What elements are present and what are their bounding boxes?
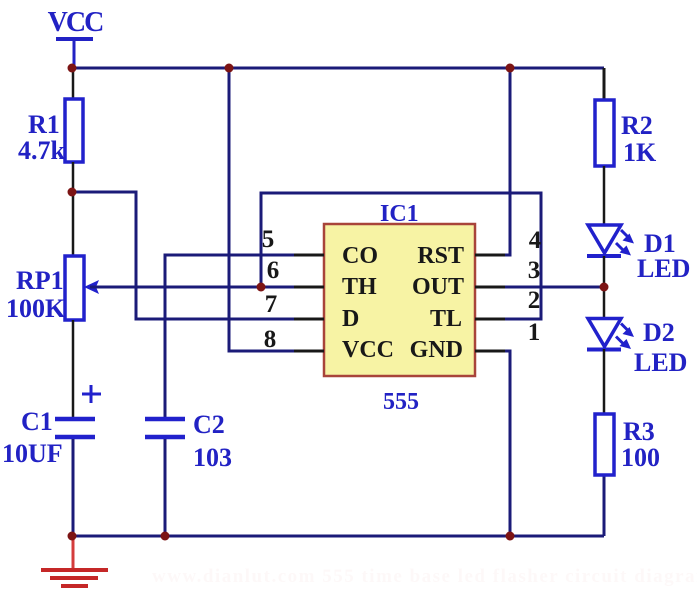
svg-text:VCC: VCC <box>342 337 394 363</box>
pin 1 stub <box>475 350 505 353</box>
svg-text:103: 103 <box>193 443 232 472</box>
svg-text:RST: RST <box>417 243 464 269</box>
svg-text:1: 1 <box>528 319 541 346</box>
wire top rail to pin4 RST <box>475 68 510 255</box>
svg-text:10UF: 10UF <box>2 439 63 468</box>
wire D2 to R3 <box>603 349 606 414</box>
svg-text:C2: C2 <box>193 410 225 439</box>
svg-text:TL: TL <box>430 306 462 332</box>
pin 3 stub <box>475 286 505 289</box>
potentiometer RP1 <box>65 256 99 320</box>
wire R2 to D1 <box>603 166 606 225</box>
capacitor C1 <box>55 385 101 437</box>
svg-text:VCC: VCC <box>48 7 103 38</box>
svg-text:4.7k: 4.7k <box>18 136 66 165</box>
svg-text:R3: R3 <box>623 417 655 446</box>
wire TH junction up and over to TL loop <box>261 193 541 319</box>
wire RP1 wiper to pin6 TH <box>90 286 324 289</box>
svg-text:4: 4 <box>529 227 542 254</box>
wire left rail R1 top stub <box>72 68 75 100</box>
pin 2 stub <box>475 318 505 321</box>
svg-text:D: D <box>342 306 359 332</box>
svg-text:LED: LED <box>634 348 687 377</box>
svg-text:GND: GND <box>410 337 463 363</box>
wire RP1 bottom to C1 <box>72 320 75 418</box>
svg-text:5: 5 <box>262 226 275 253</box>
junction node ground C2 <box>161 532 170 541</box>
wire pin1 GND down to bottom rail <box>475 351 510 536</box>
svg-text:LED: LED <box>637 254 690 283</box>
svg-text:6: 6 <box>267 257 280 284</box>
svg-text:R1: R1 <box>28 110 60 139</box>
svg-text:D2: D2 <box>643 318 675 347</box>
svg-text:CO: CO <box>342 243 378 269</box>
pin 8 stub <box>294 350 324 353</box>
wire bottom rail right riser to R3 <box>603 475 606 536</box>
svg-text:2: 2 <box>528 287 541 314</box>
svg-text:100K: 100K <box>6 294 66 323</box>
resistor R1 <box>65 99 83 162</box>
junction node ground GND pin <box>506 532 515 541</box>
svg-text:1K: 1K <box>623 138 657 167</box>
junction node A (R1/RP1/D) <box>68 188 77 197</box>
svg-text:OUT: OUT <box>412 274 464 300</box>
junction node TH/TL <box>257 283 266 292</box>
wire C1 bottom to ground rail <box>72 439 75 536</box>
svg-text:7: 7 <box>265 291 278 318</box>
junction node VCC rail left <box>68 64 77 73</box>
junction node OUT/LED rail <box>600 283 609 292</box>
wire pin3 OUT to LED rail <box>475 286 604 289</box>
svg-text:C1: C1 <box>21 407 53 436</box>
junction node VCC rail right <box>506 64 515 73</box>
svg-text:R2: R2 <box>621 111 653 140</box>
wire pin5 CO to C2 <box>165 255 324 418</box>
net VCC power symbol <box>48 7 103 68</box>
svg-text:RP1: RP1 <box>16 266 64 295</box>
LED D2 <box>587 319 634 350</box>
svg-text:IC1: IC1 <box>380 201 419 227</box>
pin 4 stub <box>475 254 505 257</box>
svg-text:3: 3 <box>528 257 541 284</box>
pin 5 stub <box>294 254 324 257</box>
junction node ground left <box>68 532 77 541</box>
op IC1 555 body <box>324 224 475 376</box>
svg-text:www.dianlut.com 555 time base: www.dianlut.com 555 time base led flashe… <box>152 566 697 587</box>
wire bottom rail <box>73 535 604 538</box>
wire top-rail right drop to R2 <box>603 68 606 101</box>
pin 6 stub <box>294 286 324 289</box>
resistor R3 <box>595 414 614 475</box>
svg-text:555: 555 <box>383 389 419 415</box>
LED D1 <box>587 225 634 256</box>
wire top rail <box>72 67 604 70</box>
wire D1 to D2 <box>603 256 606 318</box>
svg-text:100: 100 <box>621 443 660 472</box>
svg-text:TH: TH <box>342 274 377 300</box>
capacitor C2 <box>145 419 185 437</box>
svg-text:8: 8 <box>264 326 277 353</box>
wire top rail to pin8 VCC <box>229 68 324 351</box>
wire C2 bottom to ground rail <box>164 439 167 536</box>
junction node VCC rail mid <box>225 64 234 73</box>
wire R1 bottom to node A <box>72 162 75 256</box>
resistor R2 <box>595 100 614 166</box>
pin 7 stub <box>294 318 324 321</box>
wire node A to pin7 D (right then down then right) <box>73 192 324 319</box>
ground symbol <box>41 536 108 586</box>
